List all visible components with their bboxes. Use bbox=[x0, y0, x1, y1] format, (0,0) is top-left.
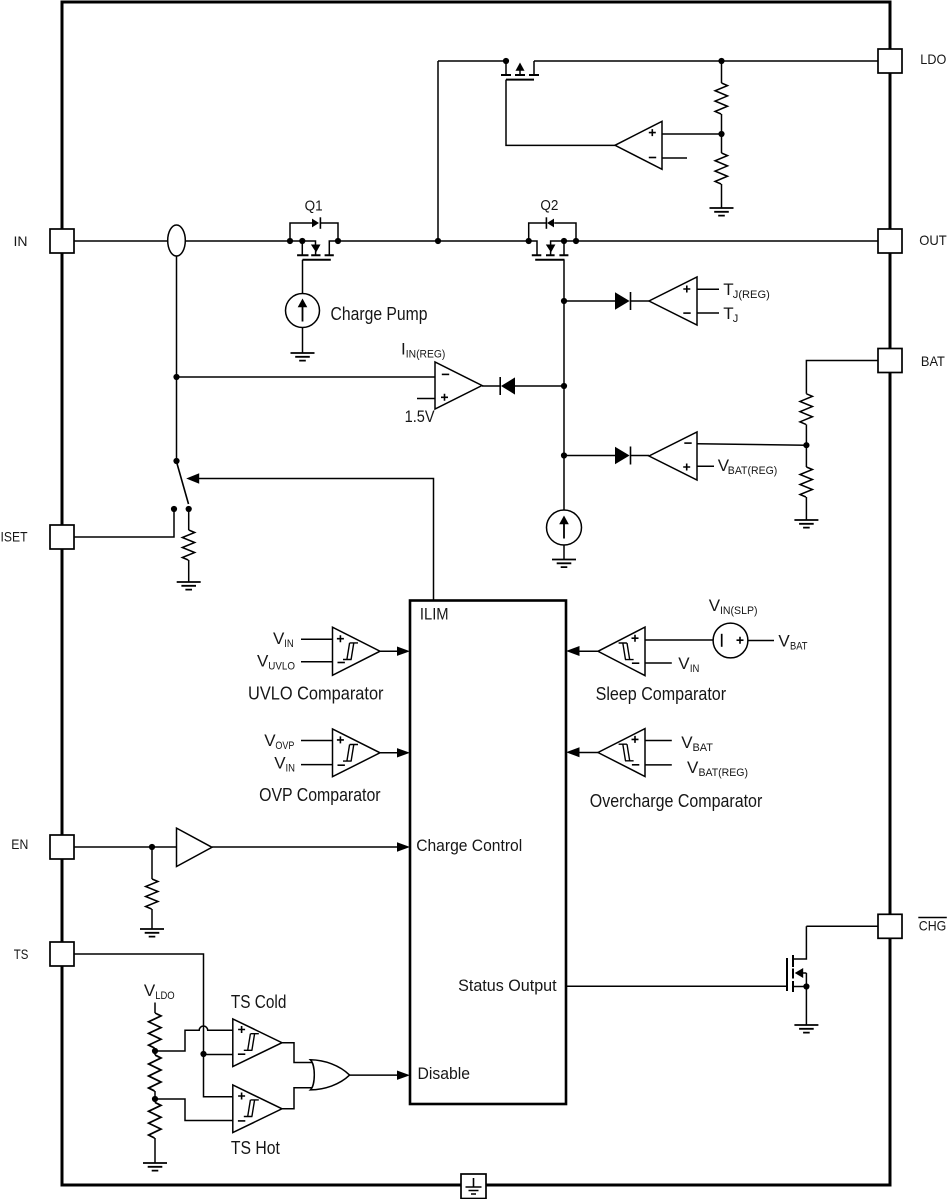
wire: TJ diode to comparator bbox=[631, 300, 650, 302]
wire: LDO amp + input to feedback divider bbox=[662, 133, 722, 135]
junction dot CHG source bbox=[803, 983, 809, 989]
arrow: ILIM control to switch bbox=[186, 473, 199, 484]
svg-text:V: V bbox=[274, 754, 286, 773]
svg-text:OVP: OVP bbox=[275, 740, 294, 752]
junction dot IIN diode at node bbox=[561, 383, 567, 389]
wire: gate node to TJ diode bbox=[564, 300, 615, 302]
junction dot TS at cold minus bbox=[200, 1051, 206, 1057]
svg-text:BAT: BAT bbox=[693, 742, 714, 754]
plus sign TS Hot bbox=[238, 1093, 245, 1100]
junction dot sense branch to amp bbox=[173, 374, 179, 380]
svg-text:TS Cold: TS Cold bbox=[231, 992, 287, 1012]
comparator: Overcharge (points left) bbox=[598, 729, 645, 777]
wire: UVLO output bbox=[380, 650, 398, 652]
wire and junction dot TS divider tap2 bbox=[154, 1091, 156, 1102]
wire: TS pin right and down bbox=[74, 954, 204, 1054]
svg-text:V: V bbox=[257, 651, 269, 670]
Q2 body diode bbox=[547, 219, 554, 228]
wire: tap2 to TS Hot - input bbox=[155, 1099, 233, 1121]
svg-text:V: V bbox=[273, 629, 285, 648]
resistor: TS divider R2 bbox=[149, 1055, 161, 1091]
svg-text:CHG: CHG bbox=[919, 918, 947, 934]
diode: IIN amp to gate node (points left) bbox=[501, 377, 515, 394]
plus sign TJ comp bbox=[683, 286, 690, 293]
svg-text:J: J bbox=[733, 313, 739, 325]
wire: VBAT comp + reference stub bbox=[697, 465, 714, 467]
svg-text:BAT(REG): BAT(REG) bbox=[699, 767, 749, 779]
Q1 channel bars bbox=[297, 254, 334, 256]
resistor: ISET program resistor bbox=[182, 530, 194, 560]
Q2 channel bars bbox=[532, 254, 569, 256]
arrow: EN into block bbox=[397, 842, 410, 851]
wire: charge pump to ground bbox=[302, 328, 304, 354]
Q2 body arrow bbox=[546, 245, 556, 253]
transistor: LDO pass PMOS bbox=[501, 61, 539, 80]
buffer: EN input bbox=[177, 828, 213, 866]
minus sign Overcharge bbox=[632, 764, 639, 766]
svg-text:UVLO: UVLO bbox=[268, 660, 295, 672]
wire: input current amp - input bbox=[177, 376, 436, 378]
svg-text:IN: IN bbox=[690, 663, 700, 675]
wire: Q1 gate lead down to charge pump bbox=[302, 260, 304, 294]
wire: ISET resistor to ground bbox=[188, 560, 190, 582]
current sense element (ellipse) on IN rail bbox=[168, 225, 186, 256]
switch: ISET selector blade bbox=[177, 464, 189, 505]
diode: thermal loop (points right) bbox=[615, 292, 630, 309]
Q1 body arrow bbox=[311, 245, 321, 253]
hysteresis symbol TS Hot bbox=[244, 1100, 259, 1117]
junction dot at LDO PMOS source bbox=[503, 58, 509, 64]
pin GND at bottom bbox=[461, 1174, 486, 1199]
transistor Q1 (input PMOS) bbox=[290, 217, 338, 259]
svg-text:1.5V: 1.5V bbox=[405, 407, 436, 426]
svg-text:V: V bbox=[687, 758, 699, 777]
wire: Overcharge + stub bbox=[645, 740, 672, 742]
junction dot switch right contact bbox=[186, 506, 192, 512]
svg-text:V: V bbox=[681, 733, 693, 752]
junction dot at LDO divider top on rail bbox=[718, 58, 724, 64]
plus sign Sleep bbox=[632, 635, 639, 642]
plus sign of LDO error amp bbox=[649, 129, 656, 136]
minus sign VBAT comp bbox=[684, 442, 691, 444]
wire: EN pulldown to ground bbox=[151, 909, 153, 929]
comparator: TS Cold (points right) bbox=[233, 1019, 282, 1067]
pin LDO bbox=[878, 49, 902, 73]
svg-text:IN: IN bbox=[286, 763, 296, 775]
wire: VBAT comp - input to battery divider tap bbox=[697, 444, 806, 446]
hysteresis symbol Sleep bbox=[619, 643, 634, 660]
wire: IIN amp + reference stub bbox=[417, 398, 435, 400]
OR gate: TS disable logic bbox=[310, 1060, 349, 1090]
wire: switch right contact to resistor bbox=[188, 509, 190, 530]
svg-text:Charge Control: Charge Control bbox=[416, 836, 522, 855]
svg-text:Q2: Q2 bbox=[540, 197, 558, 214]
svg-text:ISET: ISET bbox=[1, 529, 28, 545]
svg-text:Charge Pump: Charge Pump bbox=[331, 304, 428, 324]
ground: CHG transistor bbox=[794, 1025, 818, 1033]
svg-text:ILIM: ILIM bbox=[420, 605, 449, 624]
minus sign TS Cold bbox=[238, 1053, 245, 1055]
svg-text:Q1: Q1 bbox=[305, 198, 323, 215]
hysteresis symbol UVLO bbox=[343, 643, 358, 660]
wire: battery divider to ground bbox=[805, 497, 807, 520]
svg-text:BAT: BAT bbox=[790, 641, 808, 653]
ground: battery divider bbox=[794, 520, 818, 528]
wire: OR gate output bbox=[350, 1074, 398, 1076]
wire: LDO amp - input reference stub bbox=[662, 157, 687, 159]
svg-text:UVLO Comparator: UVLO Comparator bbox=[248, 684, 384, 704]
wire: UVLO - stub bbox=[301, 661, 333, 663]
wire: LDO divider bottom to ground bbox=[721, 184, 723, 208]
junction dot at LDO feedback tap bbox=[718, 131, 724, 137]
wire: Sleep + input to threshold source bbox=[645, 639, 713, 641]
Q2 body diode bypass wires bbox=[529, 223, 546, 241]
junction dot at LDO branch on IN rail bbox=[435, 238, 441, 244]
svg-text:Disable: Disable bbox=[418, 1064, 471, 1083]
wire: IIN diode to gate node bbox=[515, 385, 564, 387]
wire and junction dot TS divider tap1 bbox=[154, 1048, 156, 1055]
wire: Sleep output bbox=[578, 650, 598, 652]
ground: charge pump bbox=[291, 353, 315, 361]
pin BAT bbox=[878, 349, 902, 373]
plus sign VBAT comp bbox=[683, 464, 690, 471]
transistor Q2 (charge PMOS) bbox=[529, 217, 576, 259]
svg-text:Overcharge Comparator: Overcharge Comparator bbox=[590, 791, 763, 811]
junction dot battery divider tap bbox=[803, 442, 809, 448]
wire: TJ comp + stub bbox=[697, 288, 719, 290]
minus sign of IIN amp bbox=[442, 373, 449, 375]
wire: LDO pin to divider top bbox=[721, 61, 723, 83]
ground: EN pulldown bbox=[140, 929, 164, 937]
resistor: LDO feedback divider upper bbox=[715, 83, 727, 114]
comparator: UVLO (points right) bbox=[333, 627, 381, 675]
resistor: LDO feedback divider lower bbox=[715, 153, 727, 184]
diode: battery voltage loop (points right) bbox=[615, 447, 630, 464]
wire: top rail from LDO branch corner to LDO PMOS source bbox=[438, 60, 506, 62]
wire: IN rail from pin to sense ellipse bbox=[74, 240, 168, 242]
wire: rail from Q2 through node to OUT pin bbox=[551, 241, 878, 245]
junction dot TJ branch bbox=[561, 298, 567, 304]
wire: vertical branch from IN rail up to LDO circuit bbox=[437, 61, 439, 241]
transistor: CHG open-drain NMOS bbox=[787, 926, 806, 1025]
wire: TS down to hot comparator + input bbox=[204, 1054, 233, 1097]
arrow: OVP into block bbox=[397, 748, 410, 757]
wire: Overcharge output bbox=[578, 752, 598, 754]
arrow: UVLO into block bbox=[397, 647, 410, 656]
wire: top rail from LDO PMOS drain to LDO pin bbox=[534, 60, 878, 62]
junction dot Q1 source bbox=[299, 238, 305, 244]
wire: gate node to battery voltage diode bbox=[564, 455, 615, 457]
op-amp: LDO error amplifier (points left) bbox=[615, 121, 662, 169]
Q1 body diode bbox=[312, 219, 319, 228]
minus sign of LDO error amp bbox=[649, 157, 656, 159]
current source: gate node pulldown bbox=[547, 510, 582, 545]
resistor: battery divider lower bbox=[800, 467, 812, 497]
wire: TS to cold comparator - input bbox=[204, 1054, 233, 1056]
pin ISET bbox=[50, 525, 74, 549]
svg-text:LDO: LDO bbox=[920, 51, 946, 67]
ground: TS divider bbox=[143, 1163, 167, 1171]
wire: UVLO + stub bbox=[301, 638, 333, 640]
svg-text:V: V bbox=[778, 632, 790, 651]
wire: IN rail from Q1 to Q2 bbox=[329, 241, 537, 255]
wire: ISET pin to switch left contact bbox=[74, 509, 174, 537]
arrow: disable into block bbox=[397, 1071, 410, 1080]
wire: TS Hot output to OR gate bbox=[282, 1088, 312, 1109]
svg-text:OUT: OUT bbox=[919, 232, 947, 248]
junction dot Q2 drain bbox=[561, 238, 567, 244]
comparator: thermal regulation TJ (points left) bbox=[649, 277, 697, 325]
svg-text:IN: IN bbox=[284, 638, 294, 650]
svg-text:TS Hot: TS Hot bbox=[231, 1138, 280, 1158]
svg-text:TS: TS bbox=[14, 946, 29, 962]
junction dot Q2 bypass right bbox=[573, 238, 579, 244]
resistor: EN pulldown bbox=[146, 879, 158, 909]
Q2 drain lead bbox=[563, 241, 565, 255]
junction dot VBAT branch bbox=[561, 452, 567, 458]
arrow: Sleep into block bbox=[566, 646, 580, 656]
minus sign OVP bbox=[338, 764, 345, 766]
svg-text:BAT(REG): BAT(REG) bbox=[728, 465, 778, 477]
comparator: battery voltage regulation (points left) bbox=[649, 432, 697, 480]
junction dot switch top bbox=[173, 458, 179, 464]
resistor: TS divider R3 bbox=[149, 1102, 161, 1138]
wire: between LDO divider resistors bbox=[721, 114, 723, 153]
svg-text:Sleep Comparator: Sleep Comparator bbox=[596, 684, 727, 704]
pin CHG bbox=[878, 914, 902, 938]
wire: ILIM control line bbox=[199, 479, 434, 600]
wire: EN pulldown resistor top bbox=[151, 847, 153, 879]
hysteresis symbol OVP bbox=[343, 745, 358, 762]
wire: Overcharge - stub bbox=[645, 764, 672, 766]
minus sign TJ comp bbox=[683, 312, 690, 314]
Q1 source lead bbox=[301, 241, 303, 255]
hysteresis symbol Overcharge bbox=[619, 744, 634, 761]
Q2 gate bar bbox=[535, 259, 564, 261]
wire: threshold source to VBAT stub bbox=[748, 640, 774, 642]
wire: OVP - stub bbox=[301, 764, 333, 766]
wire: VBAT diode to comparator bbox=[631, 455, 650, 457]
pin OUT bbox=[878, 229, 902, 253]
Q1 body diode bypass wires bbox=[290, 223, 312, 241]
ground: ISET resistor bbox=[177, 582, 201, 590]
plus sign OVP bbox=[337, 736, 344, 743]
Q1 gate bar bbox=[303, 259, 331, 261]
junction dot switch left contact bbox=[171, 506, 177, 512]
svg-text:V: V bbox=[144, 981, 156, 1000]
svg-text:IN(REG): IN(REG) bbox=[406, 349, 446, 361]
current source: charge pump bbox=[286, 294, 320, 328]
svg-text:J(REG): J(REG) bbox=[733, 289, 770, 301]
pin EN bbox=[50, 835, 74, 859]
wire: TS divider to ground bbox=[154, 1138, 156, 1163]
hysteresis symbol TS Cold bbox=[244, 1034, 259, 1051]
wire: OVP + stub bbox=[301, 740, 333, 742]
wire: TS Cold output to OR gate bbox=[282, 1043, 312, 1063]
junction dot Q1 bypass left bbox=[287, 238, 293, 244]
comparator: OVP (points right) bbox=[333, 729, 381, 777]
minus sign TS Hot bbox=[238, 1120, 245, 1122]
svg-text:V: V bbox=[264, 731, 276, 750]
svg-text:Status Output: Status Output bbox=[458, 976, 557, 995]
wire: BAT pin to divider bbox=[806, 361, 878, 394]
svg-text:EN: EN bbox=[11, 836, 28, 852]
block: charge control logic bbox=[410, 601, 566, 1105]
junction dot EN pulldown bbox=[149, 844, 155, 850]
wire: LDO PMOS gate lead down and right to error amp output bbox=[506, 80, 615, 146]
wire: IN rail from ellipse to Q1 bbox=[185, 241, 315, 245]
svg-text:IN(SLP): IN(SLP) bbox=[720, 605, 758, 617]
wire: TJ comp - stub bbox=[697, 312, 719, 314]
wire: IIN amp output to diode bbox=[482, 385, 500, 387]
junction dot Q2 bypass left bbox=[526, 238, 532, 244]
wire: VLDO stub to divider bbox=[154, 1003, 156, 1014]
wire: status output to CHG transistor gate bbox=[566, 985, 787, 987]
wire: tap1 to TS Cold + input with crossover hop bbox=[155, 1026, 233, 1051]
wire: CHG drain to pin bbox=[806, 925, 878, 927]
wire: EN buffer output to block bbox=[212, 846, 398, 848]
wire: OVP output bbox=[380, 752, 398, 754]
plus sign of IIN amp bbox=[441, 394, 448, 401]
comparator: TS Hot (points right) bbox=[233, 1085, 282, 1133]
comparator: Sleep (points left) bbox=[598, 627, 645, 676]
pin IN bbox=[50, 229, 74, 253]
svg-text:BAT: BAT bbox=[921, 353, 945, 369]
plus sign TS Cold bbox=[238, 1026, 245, 1033]
wire: sense branch from ellipse down to switch bbox=[176, 256, 178, 461]
svg-text:V: V bbox=[709, 596, 721, 615]
ground: gate node current source bbox=[552, 560, 576, 568]
junction dot Q1 bypass right bbox=[335, 238, 341, 244]
svg-text:LDO: LDO bbox=[155, 990, 175, 1002]
resistor: battery divider upper bbox=[800, 394, 812, 425]
ground: LDO divider bbox=[710, 208, 734, 216]
voltage source: VIN(SLP) threshold bbox=[713, 623, 748, 658]
arrow: Overcharge into block bbox=[566, 747, 580, 757]
wire: current source to ground bbox=[563, 545, 565, 560]
op-amp: input current regulation amp IIN(REG) bbox=[435, 362, 482, 409]
wire: Sleep - stub bbox=[645, 662, 672, 664]
pin TS bbox=[50, 942, 74, 966]
wire: EN pin to buffer bbox=[74, 846, 177, 848]
svg-text:V: V bbox=[678, 654, 690, 673]
plus sign Overcharge bbox=[632, 736, 639, 743]
minus sign Sleep bbox=[632, 662, 639, 664]
svg-text:OVP Comparator: OVP Comparator bbox=[259, 785, 381, 805]
plus sign UVLO bbox=[337, 635, 344, 642]
svg-text:IN: IN bbox=[14, 233, 28, 249]
minus sign UVLO bbox=[338, 662, 345, 664]
resistor: TS divider R1 bbox=[149, 1013, 161, 1048]
wire: battery divider middle bbox=[805, 424, 807, 467]
wire: Q2 gate node vertical bbox=[563, 260, 565, 510]
